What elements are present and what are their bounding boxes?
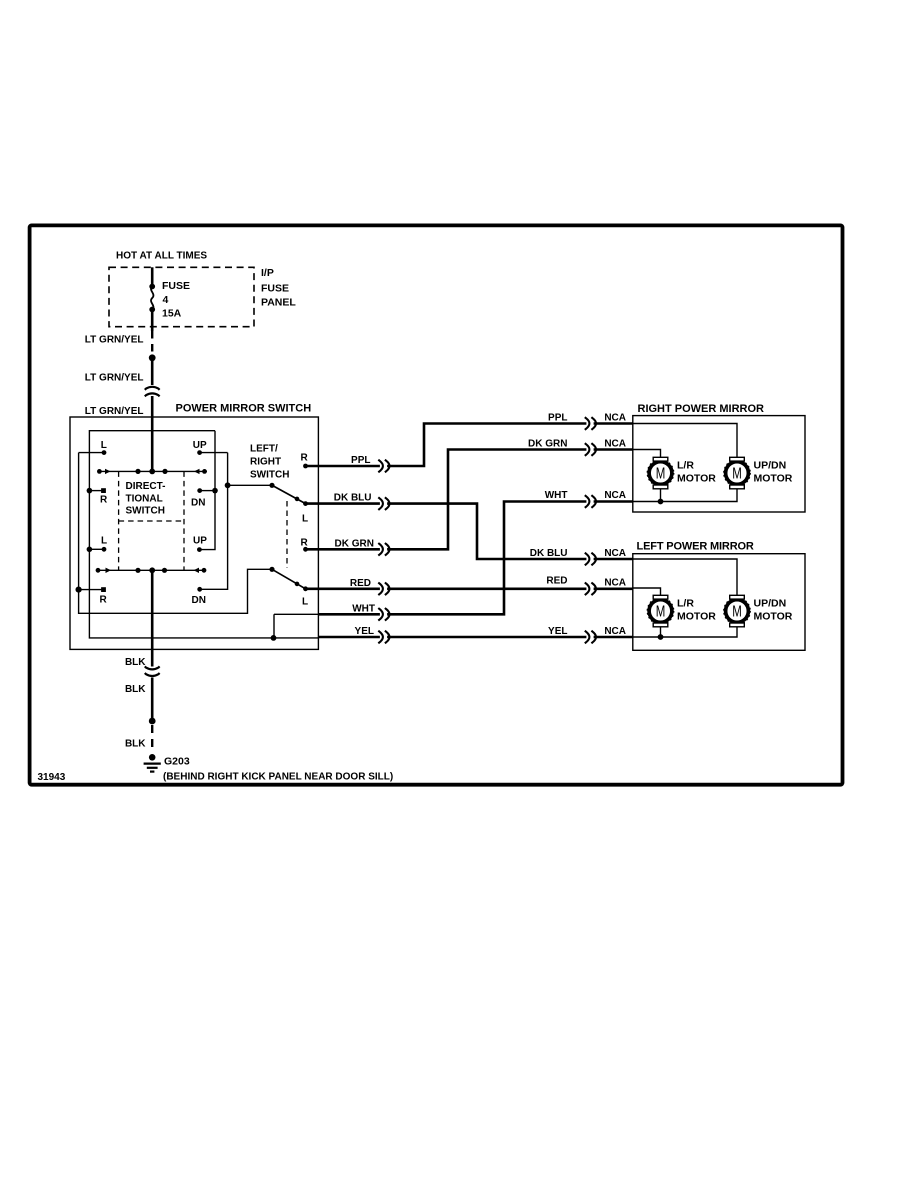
svg-text:DIRECT-: DIRECT- [126, 481, 166, 492]
svg-text:HOT AT ALL TIMES: HOT AT ALL TIMES [116, 251, 207, 262]
svg-text:15A: 15A [162, 308, 182, 320]
svg-text:NCA: NCA [604, 412, 626, 423]
svg-text:UP: UP [193, 440, 207, 451]
svg-text:YEL: YEL [548, 626, 567, 637]
svg-text:R: R [301, 538, 309, 549]
svg-text:YEL: YEL [355, 626, 374, 637]
svg-text:L/R: L/R [677, 460, 694, 472]
svg-text:MOTOR: MOTOR [754, 610, 793, 622]
svg-text:RIGHT: RIGHT [250, 456, 281, 467]
svg-text:L: L [302, 596, 308, 607]
svg-text:SWITCH: SWITCH [126, 506, 165, 517]
svg-text:NCA: NCA [604, 548, 626, 559]
svg-text:DK BLU: DK BLU [334, 493, 372, 504]
svg-text:BLK: BLK [125, 657, 146, 668]
svg-text:UP/DN: UP/DN [754, 460, 787, 472]
svg-text:WHT: WHT [545, 490, 568, 501]
svg-text:FUSE: FUSE [162, 280, 190, 292]
svg-text:G203: G203 [164, 756, 190, 768]
svg-text:UP: UP [193, 535, 207, 546]
svg-text:(BEHIND RIGHT KICK PANEL NEAR: (BEHIND RIGHT KICK PANEL NEAR DOOR SILL) [163, 772, 393, 783]
svg-text:BLK: BLK [125, 738, 146, 749]
svg-text:L: L [101, 535, 107, 546]
svg-text:TIONAL: TIONAL [126, 493, 163, 504]
svg-text:RED: RED [546, 576, 567, 587]
svg-text:SWITCH: SWITCH [250, 469, 289, 480]
svg-text:4: 4 [163, 294, 169, 306]
svg-text:FUSE: FUSE [261, 282, 289, 294]
svg-text:L/R: L/R [677, 598, 694, 610]
svg-text:NCA: NCA [604, 438, 626, 449]
svg-text:PPL: PPL [548, 413, 567, 424]
svg-text:R: R [301, 453, 309, 464]
svg-text:DK GRN: DK GRN [335, 538, 374, 549]
svg-text:LEFT/: LEFT/ [250, 443, 278, 454]
svg-text:POWER MIRROR SWITCH: POWER MIRROR SWITCH [176, 403, 312, 415]
svg-text:PPL: PPL [351, 455, 370, 466]
svg-text:R: R [100, 494, 108, 505]
svg-text:DK BLU: DK BLU [530, 548, 568, 559]
svg-text:PANEL: PANEL [261, 297, 296, 309]
svg-text:BLK: BLK [125, 684, 146, 695]
svg-text:I/P: I/P [261, 267, 274, 279]
svg-text:DK GRN: DK GRN [528, 439, 567, 450]
svg-text:UP/DN: UP/DN [754, 598, 787, 610]
svg-text:LEFT POWER MIRROR: LEFT POWER MIRROR [637, 541, 754, 553]
svg-text:LT GRN/YEL: LT GRN/YEL [85, 406, 144, 417]
svg-text:NCA: NCA [604, 626, 626, 637]
svg-text:L: L [101, 440, 107, 451]
svg-text:DN: DN [191, 498, 205, 509]
svg-text:RIGHT POWER MIRROR: RIGHT POWER MIRROR [638, 403, 765, 415]
svg-text:MOTOR: MOTOR [754, 472, 793, 484]
svg-text:MOTOR: MOTOR [677, 472, 716, 484]
svg-text:LT GRN/YEL: LT GRN/YEL [85, 335, 144, 346]
svg-text:L: L [302, 513, 308, 524]
svg-text:DN: DN [192, 595, 206, 606]
svg-text:LT GRN/YEL: LT GRN/YEL [85, 373, 144, 384]
svg-text:WHT: WHT [352, 603, 375, 614]
svg-text:31943: 31943 [38, 772, 66, 783]
svg-text:MOTOR: MOTOR [677, 610, 716, 622]
svg-text:NCA: NCA [604, 578, 626, 589]
svg-text:R: R [100, 595, 108, 606]
svg-text:NCA: NCA [604, 490, 626, 501]
svg-text:RED: RED [350, 578, 371, 589]
